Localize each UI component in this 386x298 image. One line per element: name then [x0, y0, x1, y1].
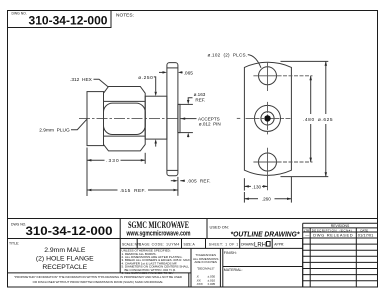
- svg-text:ø.250: ø.250: [138, 75, 153, 81]
- svg-text:ø.625: ø.625: [318, 117, 333, 123]
- scale row bottom: [120, 247, 303, 249]
- svg-text:ARE IN INCHES: ARE IN INCHES: [194, 260, 217, 264]
- divider sgmc/usedon: [206, 219, 208, 239]
- svg-text:DWG RELEASED: DWG RELEASED: [313, 233, 353, 238]
- svg-text:2.9mm PLUG: 2.9mm PLUG: [39, 127, 70, 133]
- svg-text:±.005: ±.005: [208, 282, 216, 286]
- svg-text:USED ON:: USED ON:: [210, 225, 229, 230]
- svg-text:TITLE:: TITLE:: [9, 241, 19, 245]
- flange side view: [167, 63, 178, 176]
- hex barrel: [104, 103, 146, 134]
- plug body: [87, 92, 104, 146]
- center hole inner: [261, 112, 274, 125]
- finish material divider: [223, 266, 303, 268]
- svg-text:DRAWN:: DRAWN:: [241, 242, 254, 246]
- svg-text:NOTES:: NOTES:: [116, 13, 134, 19]
- svg-text:DWG NO.: DWG NO.: [11, 223, 26, 227]
- svg-text:OR DISCLOSED WITHOUT PRIOR WRI: OR DISCLOSED WITHOUT PRIOR WRITTEN PERMI…: [33, 280, 164, 284]
- dim o.625: [281, 60, 329, 62]
- dim .260: [243, 192, 245, 203]
- svg-text:APPR:: APPR:: [274, 242, 284, 246]
- divider c1/c2: [119, 219, 121, 273]
- svg-text:RECEPTACLE: RECEPTACLE: [42, 264, 87, 271]
- leader .312 hex: [94, 79, 109, 87]
- tolerances block: [193, 253, 218, 270]
- svg-text:.065: .065: [184, 70, 194, 76]
- flange side line bottom: [167, 169, 178, 171]
- svg-text:ø.012 PIN: ø.012 PIN: [199, 122, 221, 127]
- label accepts pin: [181, 118, 197, 120]
- dim .480: [283, 75, 313, 77]
- proprietary right edge: [188, 273, 190, 287]
- dim .065: [159, 71, 163, 73]
- svg-text:2.9mm MALE: 2.9mm MALE: [44, 247, 86, 254]
- svg-text:.130: .130: [252, 184, 261, 189]
- svg-text:REF.: REF.: [195, 98, 205, 103]
- tolerance cell right: [219, 248, 221, 287]
- svg-text:"DECIMALS": "DECIMALS": [197, 266, 215, 270]
- tolerance cell left: [190, 248, 192, 287]
- svg-text:—: —: [305, 233, 309, 238]
- center hole outer: [255, 105, 281, 131]
- dim .005 REF: [171, 180, 174, 182]
- finish cells right edge: [302, 239, 304, 288]
- svg-text:.480: .480: [303, 117, 315, 123]
- svg-text:.005 REF.: .005 REF.: [187, 179, 211, 184]
- proprietary row top: [8, 272, 192, 274]
- proprietary note: [14, 275, 182, 284]
- dim o.163 REF: [178, 103, 193, 105]
- svg-text:MATERIAL:: MATERIAL:: [224, 268, 243, 272]
- finish material left: [222, 248, 224, 287]
- hex body outline: [104, 87, 146, 151]
- flange face outline: [244, 62, 291, 175]
- mount hole bottom: [259, 153, 277, 171]
- svg-text:ACCEPTS: ACCEPTS: [198, 116, 220, 121]
- notes unless otherwise: [122, 249, 191, 275]
- dim .515 REF: [177, 177, 179, 196]
- leader 2.9mm plug: [71, 119, 87, 129]
- svg-text:FINISH:: FINISH:: [224, 251, 237, 255]
- flange side line top: [167, 67, 178, 69]
- dim .130: [243, 178, 245, 190]
- centerline: [79, 118, 181, 120]
- svg-text:"PROPRIETARY INFORMATION" THE: "PROPRIETARY INFORMATION" THE INFORMATIO…: [14, 275, 182, 279]
- svg-text:.515 REF.: .515 REF.: [120, 188, 146, 194]
- svg-text:www.sgmcmicrowave.com: www.sgmcmicrowave.com: [126, 229, 191, 238]
- hex cap line top: [104, 100, 145, 102]
- hex cap line bottom: [104, 135, 145, 137]
- cylinder .250: [145, 96, 167, 139]
- svg-text:CAGE CODE: 1UYM4: CAGE CODE: 1UYM4: [139, 242, 180, 246]
- svg-text:SIZE: A: SIZE: A: [184, 242, 196, 246]
- svg-text:310-34-12-000: 310-34-12-000: [26, 224, 113, 238]
- dwg no box top: [8, 11, 112, 28]
- svg-text:LRH: LRH: [254, 242, 266, 248]
- svg-text:ø.102 (2) PLCS.: ø.102 (2) PLCS.: [208, 52, 248, 57]
- svg-text:.330: .330: [106, 158, 119, 164]
- svg-text:SHEET: 1 OF 1: SHEET: 1 OF 1: [209, 242, 239, 246]
- svg-text:.XXX: .XXX: [196, 282, 203, 286]
- svg-text:*OUTLINE DRAWING*: *OUTLINE DRAWING*: [231, 229, 301, 238]
- svg-text:DWG NO.: DWG NO.: [12, 12, 27, 16]
- mount hole top: [259, 67, 277, 85]
- svg-text:(2) HOLE FLANGE: (2) HOLE FLANGE: [36, 256, 94, 263]
- title block row1 bottom: [8, 238, 303, 240]
- svg-text:01/17/01: 01/17/01: [358, 233, 374, 238]
- scale row cell dividers: [136, 239, 138, 249]
- svg-text:.312 HEX: .312 HEX: [70, 77, 93, 83]
- revisions table: [303, 223, 378, 287]
- svg-text:310-34-12-000: 310-34-12-000: [29, 14, 108, 28]
- center pin: [264, 115, 270, 121]
- svg-text:ø.163: ø.163: [194, 92, 206, 97]
- dim .330: [86, 148, 88, 197]
- dielectric protrusion: [178, 104, 180, 132]
- title block top line: [8, 218, 378, 220]
- svg-text:.260: .260: [262, 197, 271, 202]
